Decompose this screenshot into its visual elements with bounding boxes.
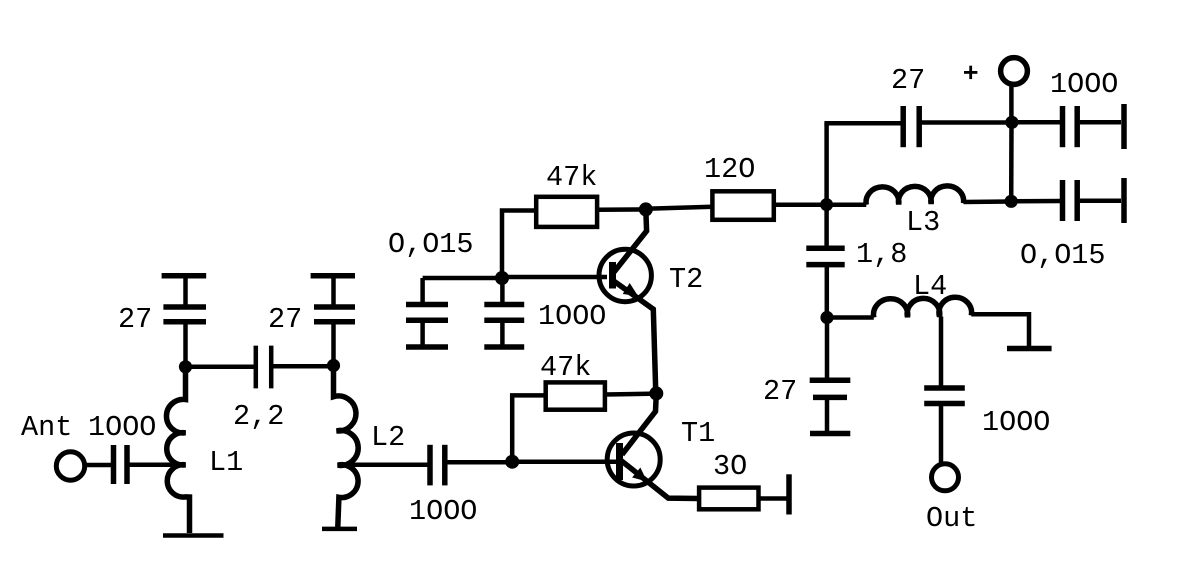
svg-text:12O: 12O <box>704 153 755 186</box>
capacitor 1000 output <box>924 388 965 404</box>
svg-text:Out: Out <box>926 502 977 535</box>
svg-text:27: 27 <box>891 64 925 97</box>
inductor L2 <box>334 366 359 528</box>
svg-text:2,2: 2,2 <box>233 400 284 433</box>
capacitor 1000 shunt T2 base <box>484 283 524 345</box>
terminal bar after 30 <box>786 474 792 514</box>
wire antenna to C-ant <box>85 463 112 468</box>
wire C-ant to L1 tap <box>130 463 186 468</box>
svg-text:Ant: Ant <box>21 411 72 444</box>
wire node E to T2 base <box>502 275 607 280</box>
ground after L4 <box>1007 346 1052 352</box>
resistor 30 <box>699 488 758 510</box>
wire L3 to node I <box>964 199 1012 204</box>
wire node A to C2,2 <box>186 365 255 370</box>
wire node Dp to 120 <box>646 207 713 209</box>
plus sign <box>964 66 977 79</box>
supply connector plus <box>1001 58 1028 85</box>
wire L4 tap down <box>939 317 944 387</box>
wire node C to T1 base <box>512 459 617 464</box>
svg-text:O,O15: O,O15 <box>388 228 474 261</box>
antenna connector Ant <box>56 452 84 480</box>
wire 47k lower to node D <box>605 391 656 396</box>
wire 120 to node F <box>774 203 827 208</box>
svg-text:L2: L2 <box>371 421 405 454</box>
ground L1 <box>163 533 224 538</box>
svg-text:47k: 47k <box>546 161 597 194</box>
wire C0,015 to end bar <box>1080 199 1121 204</box>
svg-text:L1: L1 <box>209 446 243 479</box>
svg-text:1OOO: 1OOO <box>982 406 1050 439</box>
capacitor 1000 antenna coupling <box>114 445 128 484</box>
node Dp T2 collector node <box>639 202 653 216</box>
ground L2 <box>322 527 357 532</box>
wire node C up to 47k lower <box>512 395 546 461</box>
wire C1000 out to connector <box>939 406 944 464</box>
wire 47k upper to node Dp <box>597 207 646 212</box>
svg-text:1OOO: 1OOO <box>409 495 477 528</box>
svg-text:27: 27 <box>763 375 797 408</box>
transistor T1 <box>607 393 699 498</box>
node I <box>1005 195 1018 208</box>
wire C1000 to node C <box>447 460 512 465</box>
wire node H down to node I <box>1009 122 1014 201</box>
wire C2,2 to node B <box>273 364 334 369</box>
ground 1000 shunt <box>484 344 524 350</box>
svg-text:1OOO: 1OOO <box>88 411 156 444</box>
svg-text:1,8: 1,8 <box>856 238 907 271</box>
resistor 47k lower <box>546 382 605 409</box>
wire top corner to C27 <box>824 121 901 126</box>
wire H to C1000 <box>1018 120 1060 125</box>
capacitor 0,015 right <box>1063 180 1078 221</box>
wire node G down to C27 <box>825 318 830 379</box>
output connector Out <box>932 464 959 491</box>
wire node I to C0,015 <box>1011 199 1060 204</box>
svg-text:L3: L3 <box>906 206 940 239</box>
node H supply node <box>1005 116 1018 129</box>
wire C1000 to end bar <box>1080 120 1121 125</box>
node D T2 emitter T1 collector <box>649 386 663 400</box>
wire node F to L3 <box>827 203 867 208</box>
capacitor 0,015 shunt <box>406 278 448 345</box>
capacitor 27 above L1 <box>162 276 207 366</box>
node B top of L2 <box>327 359 340 372</box>
capacitor 2,2 coupling <box>256 346 271 389</box>
svg-text:27: 27 <box>268 303 302 336</box>
inductor L1 <box>166 367 189 533</box>
ground 0,015 <box>406 344 448 350</box>
wire node H to supply circle <box>1009 86 1014 122</box>
node A top of L1 <box>179 360 192 373</box>
terminal bar 1000 top right <box>1121 104 1127 149</box>
svg-text:3O: 3O <box>713 450 747 483</box>
svg-text:1OOO: 1OOO <box>538 300 606 333</box>
capacitor 1,8 interstage <box>806 205 844 318</box>
inductor L4 <box>874 297 972 317</box>
capacitor 1000 top right <box>1063 106 1078 147</box>
wire C27 to node H <box>922 120 1012 125</box>
resistor 120 <box>712 191 773 220</box>
capacitor 27 above L2 <box>311 276 355 365</box>
wire L2 tap to C1000 <box>338 463 428 468</box>
capacitor 27 top right <box>903 106 919 147</box>
wire node E to left branch <box>423 276 502 281</box>
svg-text:O,O15: O,O15 <box>1020 239 1106 272</box>
wire vertical F up <box>824 123 829 205</box>
svg-text:47k: 47k <box>540 351 591 384</box>
capacitor 1000 into T1 base <box>430 445 445 486</box>
terminal bar 0,015 right <box>1121 178 1127 223</box>
wire 30 to end bar <box>759 496 788 501</box>
node E T2 base node <box>495 271 509 285</box>
svg-text:T2: T2 <box>669 263 703 296</box>
svg-text:L4: L4 <box>913 270 947 303</box>
capacitor 27 bottom right <box>810 380 851 431</box>
node C T1 base node <box>505 455 519 469</box>
ground 27 bottom right <box>810 431 850 437</box>
node G <box>820 311 833 324</box>
node F supply rail left <box>820 198 833 211</box>
svg-text:1OOO: 1OOO <box>1050 68 1118 101</box>
wire L4 to ground right <box>971 314 1029 346</box>
wire node E up to 47k upper <box>502 211 537 279</box>
svg-text:T1: T1 <box>681 417 715 450</box>
resistor 47k upper <box>536 197 597 227</box>
inductor L3 <box>866 186 964 205</box>
svg-text:27: 27 <box>118 303 152 336</box>
wire node G to L4 <box>827 315 874 320</box>
transistor T2 <box>599 209 656 393</box>
